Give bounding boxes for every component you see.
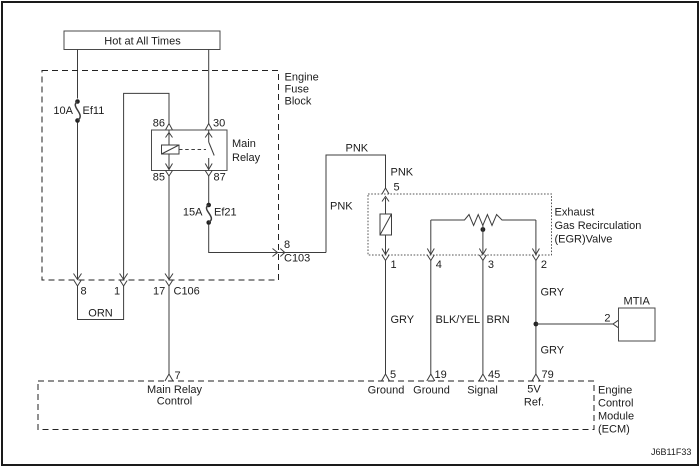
svg-text:Ground: Ground: [368, 385, 405, 397]
svg-text:GRY: GRY: [391, 314, 415, 326]
svg-text:Control: Control: [598, 398, 633, 410]
svg-text:87: 87: [214, 172, 226, 184]
svg-text:8: 8: [284, 239, 290, 251]
svg-text:PNK: PNK: [391, 167, 414, 179]
EGR potentiometer: [427, 215, 539, 255]
connector C106 pin 17: [166, 281, 173, 287]
svg-text:(ECM): (ECM): [598, 424, 630, 436]
svg-text:ORN: ORN: [88, 308, 113, 320]
svg-text:Gas Recirculation: Gas Recirculation: [555, 220, 642, 232]
ECM dashed box: [38, 381, 594, 430]
svg-text:19: 19: [435, 369, 447, 381]
svg-text:Main Relay: Main Relay: [147, 384, 203, 396]
svg-text:GRY: GRY: [541, 344, 565, 356]
svg-text:Engine: Engine: [285, 72, 319, 84]
ECM pin 7 connector and wire from C106 pin 17: [165, 286, 173, 381]
svg-text:PNK: PNK: [346, 143, 369, 155]
svg-text:15A: 15A: [183, 207, 203, 219]
fuse Ef11: [75, 99, 80, 123]
svg-text:PNK: PNK: [330, 201, 353, 213]
power box Hot at All Times: [64, 31, 220, 50]
svg-text:BLK/YEL: BLK/YEL: [436, 314, 481, 326]
connector C106 pin 8: [74, 281, 81, 287]
svg-text:30: 30: [213, 118, 225, 130]
svg-text:79: 79: [542, 369, 554, 381]
wire BLK/YEL pin4 to ECM pin 19: [427, 261, 435, 382]
Engine Fuse Block dashed box: [42, 71, 279, 281]
svg-text:5: 5: [390, 369, 396, 381]
wire fuse Ef11 to C106 pin 8: [74, 123, 82, 280]
svg-text:5: 5: [394, 182, 400, 194]
svg-text:Control: Control: [157, 396, 192, 408]
relay switch: [205, 130, 214, 170]
wire GRY pin1 to ECM pin 5: [382, 261, 390, 382]
svg-text:Hot at All Times: Hot at All Times: [104, 36, 181, 48]
relay link dashed: [179, 149, 206, 151]
EGR pin 4 connector: [427, 255, 434, 261]
svg-text:Main: Main: [232, 138, 256, 150]
EGR pin 1 connector: [382, 255, 389, 261]
wire from Hot box to fuse Ef11: [77, 50, 79, 99]
svg-text:5V: 5V: [527, 384, 541, 396]
svg-text:1: 1: [391, 259, 397, 271]
svg-text:2: 2: [604, 313, 610, 325]
EGR pin 3 connector: [479, 255, 486, 261]
svg-text:3: 3: [488, 259, 494, 271]
wire Ef21 to connector C103: [209, 225, 326, 257]
wire from Hot box to relay pin 30: [205, 50, 212, 131]
svg-text:Block: Block: [285, 96, 312, 108]
connector MTIA box: [619, 308, 656, 341]
svg-text:Exhaust: Exhaust: [555, 207, 595, 219]
wire node coil feed (pin 86 branch to C106 pin 1): [120, 93, 173, 279]
svg-text:Signal: Signal: [467, 385, 498, 397]
wire ORN loop: [78, 286, 124, 320]
svg-text:1: 1: [114, 286, 120, 298]
svg-text:MTIA: MTIA: [624, 296, 651, 308]
svg-text:BRN: BRN: [487, 314, 510, 326]
svg-text:85: 85: [153, 172, 165, 184]
EGR solenoid coil: [380, 197, 392, 255]
svg-text:Relay: Relay: [232, 152, 261, 164]
relay K1 Main Relay box: [152, 130, 228, 171]
svg-text:J6B11F33: J6B11F33: [651, 447, 691, 457]
junction node on GRY wire: [534, 322, 539, 327]
EGR valve dashed box: [368, 194, 552, 255]
svg-text:10A: 10A: [53, 105, 73, 117]
svg-text:Fuse: Fuse: [285, 84, 309, 96]
relay coil: [162, 130, 180, 170]
svg-text:Ground: Ground: [413, 385, 450, 397]
svg-text:86: 86: [153, 118, 165, 130]
svg-text:(EGR)Valve: (EGR)Valve: [555, 234, 613, 246]
wire BRN pin3 to ECM pin 45: [479, 261, 487, 382]
svg-text:17: 17: [153, 286, 165, 298]
svg-text:C103: C103: [284, 253, 310, 265]
svg-text:45: 45: [488, 369, 500, 381]
wire C103 to EGR pin 5 (PNK): [326, 155, 389, 253]
EGR pot wiper: [479, 226, 486, 255]
connector C106 pin 1: [120, 281, 127, 287]
svg-text:Ef21: Ef21: [214, 207, 237, 219]
EGR pin 2 connector: [532, 255, 539, 261]
svg-text:C106: C106: [174, 286, 200, 298]
svg-text:7: 7: [175, 370, 181, 382]
svg-text:Ref.: Ref.: [524, 397, 544, 409]
wire junction to MTIA pin 2: [536, 320, 619, 328]
relay pin 87 connector and wire to fuse Ef21: [205, 171, 212, 204]
svg-text:4: 4: [436, 259, 442, 271]
svg-text:Module: Module: [598, 411, 634, 423]
connector C103 female half: [280, 249, 285, 257]
svg-text:Engine: Engine: [598, 385, 632, 397]
svg-text:2: 2: [541, 259, 547, 271]
svg-text:Ef11: Ef11: [83, 105, 105, 117]
fuse Ef21: [206, 203, 211, 225]
svg-text:8: 8: [81, 286, 87, 298]
wire GRY pin2 to ECM pin 79: [532, 261, 540, 382]
svg-text:GRY: GRY: [541, 286, 565, 298]
relay pin 85 connector and wire to C106 pin 17: [165, 171, 173, 280]
